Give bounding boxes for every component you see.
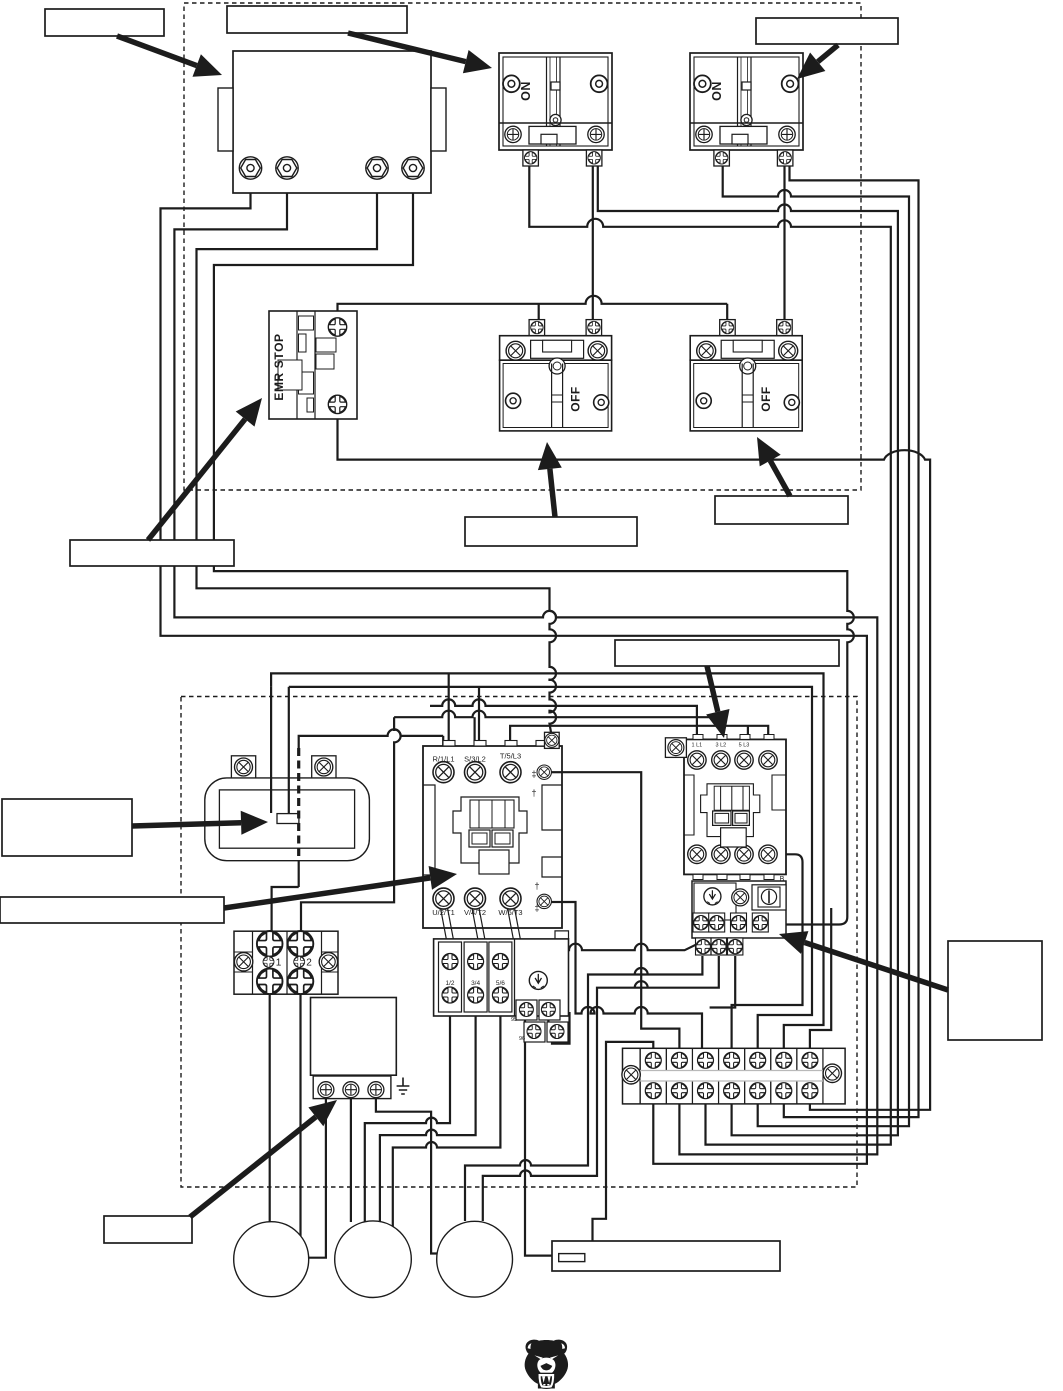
svg-text:T/5/L3: T/5/L3 (500, 752, 521, 761)
contactor K2 aux terminal block (top left) (665, 738, 686, 758)
wire CT feed line lower (y686) to TB2 top terminal 5 (289, 687, 812, 1050)
pushbutton switch S2 (ON) (690, 53, 803, 150)
svg-text:96: 96 (519, 1036, 525, 1042)
callout box: OFF switch label (465, 517, 637, 546)
callout box: contactor K1 label (0, 897, 224, 923)
wire CT primary conductor a (270, 687, 272, 813)
arrow to contactor K1 (224, 878, 430, 908)
terminal block TB1 (234, 931, 338, 994)
wire transformer-t2 to TB2 bottom terminal 2 (net X2) (174, 178, 877, 1154)
CT1 window (277, 814, 299, 824)
callout box: ON switch label (227, 6, 407, 33)
callout box: thermistor label (552, 1241, 780, 1271)
wire S3 left tab up to EMR line (538, 304, 540, 320)
wire PS terminal b to motor M2 (350, 1099, 352, 1222)
svg-text:95: 95 (511, 1017, 517, 1023)
wire OL1 95 to L12 resistor (525, 1014, 559, 1256)
wire TB1-2 bottom to motor M1 (299, 992, 301, 1236)
wire CT primary conductor b (288, 687, 290, 813)
wire TB1 terminal 1 to CT to K1 (vertical through CT) (298, 861, 300, 887)
wire CT exit jog to TB1 terminal 1 (272, 887, 299, 934)
callout box: PS label (104, 1216, 192, 1243)
arrow to switch S3 (550, 469, 555, 517)
svg-text:ON: ON (710, 81, 724, 101)
overload relay OL2 (692, 881, 786, 938)
earth ground symbol (397, 1078, 410, 1095)
wire K1 aux NO terminal to TB2 top terminal 2 (552, 772, 679, 1050)
bear logo (525, 1340, 568, 1389)
wire feed to K2 terminal 1L1 (430, 699, 697, 748)
pushbutton switch S4 (OFF) (720, 320, 736, 336)
svg-text:†: † (531, 788, 536, 798)
wire K2 right-bottom terminal to TB2 top terminal 4 (732, 854, 803, 1050)
CT1 centre conductor (dashed section) (297, 748, 300, 861)
arrow to contactor K2 (707, 666, 718, 712)
callout box: right ON switch label (756, 18, 898, 44)
wire S2 right tab second conductor to TB2 bottom terminal 6 (784, 166, 919, 1117)
wire OL1 NC to OL2 link (y950) with diagonal to OL2 terminal (569, 923, 741, 950)
wire OL2 aux c to TB2 top terminal 3b (710, 956, 736, 1008)
callout box: contactor K2 label (615, 640, 839, 666)
transformer T1 hex terminal 1 (239, 157, 261, 179)
motor M2 (335, 1221, 412, 1298)
arrow to PS terminals (190, 1117, 316, 1217)
wire OL1 3/4 to motor M2 (380, 1000, 476, 1222)
svg-text:2: 2 (306, 958, 312, 969)
wire TB2 top terminal 1 to L12 box (593, 1042, 654, 1241)
svg-text:EMR STOP: EMR STOP (272, 333, 286, 400)
wire TB1-2 / K1-L2 / K2-L2 line (301, 711, 723, 934)
transformer T1 right mounting tab (431, 88, 446, 151)
wire S1 left tab to TB2 bottom terminal 3 (529, 166, 891, 1145)
svg-text:OFF: OFF (569, 386, 583, 412)
wire K1 aux NC terminal to TB2 top terminal 3 (550, 902, 702, 1050)
wire stub K1 aux NO (551, 771, 563, 773)
emergency stop switch EMR STOP (269, 311, 357, 419)
upper dashed enclosure (control panel boundary) (184, 3, 861, 490)
arrow to CT1 (132, 823, 241, 826)
svg-text:5/6: 5/6 (496, 980, 505, 987)
svg-text:5 L3: 5 L3 (739, 743, 750, 749)
wire OL2 aux a to M3 lead (via x588) (465, 956, 702, 1221)
contactor K1 (423, 746, 562, 928)
pushbutton switch S3 (OFF) (529, 320, 545, 336)
wire transformer-t1 to TB2 bottom terminal 1 (net X1) (161, 178, 867, 1164)
wire branch down to K1 input tab b (478, 686, 480, 745)
arrow to EMR STOP switch (148, 419, 245, 540)
transformer T1 body (233, 51, 431, 193)
transformer T1 hex terminal 2 (276, 157, 298, 179)
svg-text:‡: ‡ (534, 903, 539, 913)
power supply PS box (311, 998, 397, 1076)
svg-text:3 L2: 3 L2 (716, 743, 727, 749)
contactor K1 aux terminal block (top right) (545, 732, 560, 748)
wire transformer-t3 to K1 coil terminal A1 (wavy crossing wire) (197, 178, 557, 734)
wire CT feed line upper (y673) to TB2 top terminal 6 (271, 673, 823, 1050)
arrow to switch S4 (770, 461, 790, 496)
transformer T1 hex terminal 4 (402, 157, 424, 179)
wire S2 left tab to TB2 bottom terminal 5 (723, 166, 909, 1126)
contactor K2 (684, 739, 786, 874)
svg-text:ON: ON (519, 81, 533, 101)
wire branch down to K1 input tab a (448, 673, 450, 745)
wire TB1-1 through CT to K1 R/1/L1 (y736) (299, 729, 444, 749)
motor M1 (234, 1222, 309, 1297)
svg-text:3/4: 3/4 (471, 980, 480, 987)
transformer T1 left mounting tab (218, 88, 233, 151)
arrow to switch S1 (348, 33, 466, 62)
lower dashed enclosure (power panel boundary) (181, 697, 857, 1188)
wire S1 right tab to S3 (OFF) right tab (592, 166, 594, 320)
wire K1 T/5/L3 to K2 line (y726) (510, 726, 768, 748)
wire PS terminal c to motor M3 left side (376, 1099, 438, 1254)
svg-text:1/2: 1/2 (445, 980, 454, 987)
wire OL1 1/2 to motor M2 (365, 1000, 450, 1223)
power supply PS terminal strip (313, 1076, 391, 1099)
svg-text:‡: ‡ (531, 769, 536, 779)
callout box: CT label (2, 799, 132, 856)
wire TB1-1 bottom to motor M1 (269, 992, 271, 1223)
wire S4 left tab up to EMR line (726, 304, 728, 320)
wire EMR-STOP bottom terminal to TB2 bottom terminal 7 (338, 412, 931, 1110)
svg-text:1: 1 (276, 958, 282, 969)
callout box: OL2 label (948, 941, 1042, 1040)
arrow to OL2 terminals (805, 942, 948, 990)
wire S2 right tab to S4 (OFF) right tab (783, 166, 785, 320)
overload relay OL1 (441, 908, 454, 940)
terminal block TB2 (623, 1048, 846, 1104)
svg-text:†: † (534, 881, 539, 891)
wire EMR-STOP top terminal to OFF switch tabs (S3/S4 left tabs) (338, 296, 728, 320)
current transformer CT1 (231, 756, 255, 782)
resistor R1 (thermistor) (559, 1254, 585, 1262)
wire S1 right tab second conductor to TB2 bottom terminal 4 (598, 166, 898, 1135)
callout box: EMR STOP label (70, 540, 234, 566)
wire stub K1 aux NC (551, 901, 563, 903)
callout box: transformer label (45, 9, 164, 36)
wire PS terminal a to motor M1 side (309, 1099, 326, 1258)
wire transformer-t4 to OL2 terminal (right side drop at x847) (214, 178, 854, 925)
wire OL1 5/6 to motor M2 (393, 1000, 501, 1227)
wire OL1 96 hook (548, 1012, 569, 1044)
svg-text:1 L1: 1 L1 (692, 743, 703, 749)
arrow to switch S2 (818, 45, 838, 62)
arrow to transformer T1 (117, 36, 197, 66)
transformer T1 hex terminal 3 (366, 157, 388, 179)
wire OL2 aux b to M3 lead (via x597) (483, 956, 719, 1221)
pushbutton switch S1 (ON) (499, 53, 612, 150)
wire K1 S/3/L2 riser (474, 717, 476, 748)
svg-text:OFF: OFF (759, 386, 773, 412)
motor M3 (437, 1221, 513, 1297)
wire riser to TB2 top terminal 7 (from OL2 area) (810, 908, 831, 1050)
callout box: right OFF switch label (715, 496, 848, 524)
